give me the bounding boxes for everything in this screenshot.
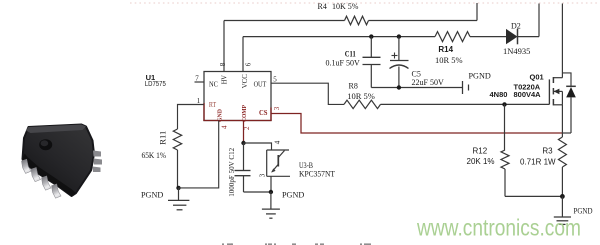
svg-text:6: 6 [245,62,253,66]
svg-text:LD7575: LD7575 [145,79,166,88]
ground PGND (C5 rail, rotated) [462,81,464,94]
svg-text:10R 5%: 10R 5% [435,55,463,65]
svg-text:RT: RT [209,101,217,109]
body diode of Q01 [562,73,575,133]
node C5 bottom [397,85,401,89]
wire C11/C5 bottom rail [371,87,462,89]
wire R12 bottom lead [504,169,506,196]
svg-text:0.71R 1W: 0.71R 1W [520,158,556,167]
wire R3 bottom lead [561,167,563,196]
svg-text:R4: R4 [318,2,327,11]
wire D2 cathode to riser [518,36,540,38]
wire jog up to cut line [476,3,478,21]
svg-text:1N4935: 1N4935 [503,46,530,56]
ground PGND (opto) [270,192,272,209]
resistor R4 [345,16,369,25]
wire GND pin4 down and left [179,121,219,188]
wire HV pin8 up to R4 rail [223,21,225,72]
IC package photo (SOIC-8) [22,125,103,199]
resistor R8 [344,100,381,108]
svg-text:KPC357NT: KPC357NT [299,170,335,179]
wire R4 rail left segment [224,20,345,22]
svg-text:65K 1%: 65K 1% [142,151,167,160]
opto-transistor U3-B [267,150,290,176]
svg-text:OUT: OUT [254,79,267,88]
resistor R11 [173,129,181,150]
node C5 top [397,34,401,38]
wire R11 bottom lead [177,150,179,188]
svg-text:20K 1%: 20K 1% [467,157,495,166]
wire VCC rail [243,36,435,38]
svg-text:3: 3 [259,173,267,177]
svg-text:10K 5%: 10K 5% [332,2,359,11]
node gate/R12 junction [502,102,506,106]
svg-text:R11: R11 [159,131,168,145]
capacitor C5 (electrolytic) [390,37,409,88]
svg-text:0.1uF 50V: 0.1uF 50V [326,59,360,68]
wire R12 top lead [504,104,506,150]
resistor R12 [501,150,509,169]
transistor Q01 N-MOSFET [549,77,562,105]
svg-text:7: 7 [195,75,199,83]
diode D2 [506,29,518,44]
svg-text:CS: CS [259,109,268,117]
svg-text:PGND: PGND [141,190,163,199]
svg-text:NC: NC [209,79,218,88]
cut line (dotted) [130,2,600,4]
wire COMP pin2 down (red) [243,121,245,144]
svg-text:4: 4 [274,140,282,144]
svg-text:PGND: PGND [469,72,491,81]
svg-text:8: 8 [219,62,227,66]
caption fragment marks (cropped text) [222,243,371,245]
svg-text:22uF 50V: 22uF 50V [412,78,444,87]
svg-text:Q01: Q01 [530,73,544,82]
svg-text:1: 1 [197,97,201,105]
svg-text:PGND: PGND [282,190,304,199]
svg-text:800V4A: 800V4A [514,90,542,99]
wire R4 rail right segment [369,20,478,22]
svg-text:10R 5%: 10R 5% [347,91,375,101]
svg-text:4: 4 [221,125,229,129]
node C11 top [369,34,373,38]
svg-text:D2: D2 [511,22,521,31]
wire drain riser to cut line [561,4,563,78]
wire COMP junction to opto collector [244,143,272,150]
wire riser x=539 to cut line [538,4,540,37]
wire COMP junction down to C12 [243,143,245,171]
wire R14 to D2 anode [470,36,506,38]
svg-text:3: 3 [273,106,281,110]
node opto emitter / C12 / ground [269,190,273,194]
op-amp U1 LD7575 chip body [203,72,271,122]
wire opto emitter down [270,176,272,192]
capacitor C11 [363,37,381,88]
svg-text:HV: HV [221,75,229,84]
wire VCC pin6 up to rail [242,37,244,72]
wire source down [561,105,563,133]
svg-text:COMP: COMP [241,105,248,122]
node R11/GND junction [176,186,180,190]
wire C12 bottom to opto emitter node [244,191,271,193]
wire CS pin3 net (red) [271,114,562,134]
svg-text:VCC: VCC [240,74,249,88]
wire R3 top lead [561,133,563,137]
wire R8 to MOSFET gate [381,103,550,105]
ground PGND (left) [178,188,180,201]
svg-text:R3: R3 [542,146,553,155]
svg-text:GND: GND [217,109,224,122]
ground PGND (bottom right) [561,196,563,217]
wire bottom rail R12-R3 [505,195,562,197]
resistor R3 [558,137,566,167]
svg-text:4N80: 4N80 [490,90,508,99]
svg-text:R14: R14 [438,45,453,54]
svg-text:R8: R8 [349,82,358,91]
node R3 bottom [560,194,565,199]
svg-text:5: 5 [273,76,277,84]
capacitor C12 [235,171,251,193]
pin 1 RT wire [178,105,205,130]
wire OUT pin5 to R8 [271,83,344,104]
svg-text:1000pF 50V C12: 1000pF 50V C12 [227,148,236,197]
svg-text:C11: C11 [345,49,356,58]
pin 7 NC stub wire [195,81,205,83]
node COMP junction [241,141,245,145]
resistor R14 [435,32,470,42]
svg-text:www.cntronics.com: www.cntronics.com [416,215,581,241]
svg-text:R12: R12 [473,146,488,155]
